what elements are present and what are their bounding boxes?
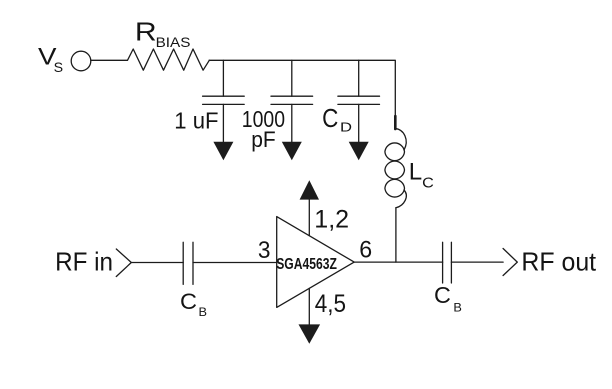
svg-text:C: C [434, 282, 451, 308]
svg-text:pF: pF [251, 127, 276, 152]
svg-text:S: S [54, 60, 63, 76]
svg-text:SGA4563Z: SGA4563Z [276, 256, 337, 273]
svg-text:B: B [453, 301, 462, 315]
svg-text:4,5: 4,5 [315, 290, 346, 318]
svg-text:R: R [135, 17, 157, 47]
svg-text:C: C [422, 176, 434, 192]
svg-text:C: C [180, 289, 197, 314]
svg-text:C: C [322, 105, 338, 133]
svg-text:1,2: 1,2 [314, 206, 349, 234]
svg-text:D: D [340, 120, 352, 135]
svg-text:B: B [199, 305, 208, 319]
svg-text:1 uF: 1 uF [174, 108, 218, 134]
svg-text:L: L [409, 159, 422, 186]
svg-text:RF in: RF in [55, 247, 113, 277]
svg-text:6: 6 [359, 236, 372, 263]
svg-text:RF out: RF out [521, 247, 596, 277]
svg-text:3: 3 [258, 237, 271, 264]
svg-text:BIAS: BIAS [156, 34, 191, 50]
